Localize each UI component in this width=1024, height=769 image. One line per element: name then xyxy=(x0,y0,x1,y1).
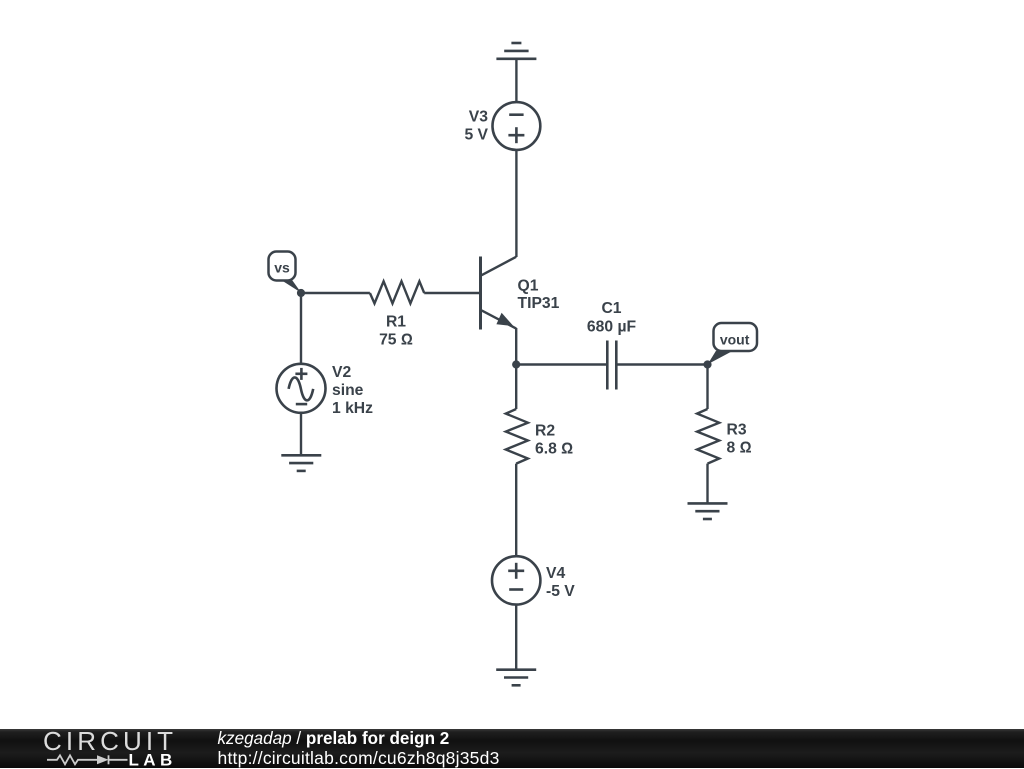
wire xyxy=(300,293,302,364)
resistor R3 xyxy=(697,409,719,464)
voltage source V3 xyxy=(493,102,541,150)
svg-text:5 V: 5 V xyxy=(464,127,488,144)
voltage source V2 xyxy=(277,364,326,413)
svg-text:Q1: Q1 xyxy=(518,278,539,295)
ground (at V4) xyxy=(496,670,536,686)
wire xyxy=(616,363,707,365)
wire xyxy=(706,365,708,410)
voltage source V4 xyxy=(492,556,540,604)
svg-text:V3: V3 xyxy=(469,109,488,126)
svg-text:vs: vs xyxy=(274,260,290,276)
ground (at R3) xyxy=(688,503,728,519)
svg-text:V4: V4 xyxy=(546,565,565,582)
capacitor C1 xyxy=(607,341,616,390)
svg-text:V2: V2 xyxy=(332,364,351,381)
node (vout) xyxy=(703,360,711,368)
svg-text:vout: vout xyxy=(720,332,750,348)
footer title text xyxy=(218,729,450,749)
wire xyxy=(301,292,370,294)
footer url text xyxy=(218,748,500,769)
svg-text:75 Ω: 75 Ω xyxy=(379,332,413,349)
flag vout xyxy=(708,323,757,364)
transistor Q1 xyxy=(481,257,517,330)
svg-text:6.8 Ω: 6.8 Ω xyxy=(535,441,573,458)
wire (emitter to node) xyxy=(515,328,517,365)
svg-text:-5 V: -5 V xyxy=(546,583,575,600)
ground (at V2) xyxy=(281,455,321,471)
wire xyxy=(706,464,708,504)
svg-text:8 Ω: 8 Ω xyxy=(727,440,752,457)
CircuitLab logo xyxy=(0,729,200,768)
wire xyxy=(515,59,517,103)
resistor R1 xyxy=(370,281,424,303)
svg-text:680 µF: 680 µF xyxy=(587,319,637,336)
flag vs xyxy=(269,252,302,293)
svg-text:R1: R1 xyxy=(386,314,406,331)
resistor R2 xyxy=(506,409,528,464)
svg-text:LAB: LAB xyxy=(129,751,177,769)
svg-text:R2: R2 xyxy=(535,423,555,440)
node (emitter) xyxy=(512,360,520,368)
svg-text:1 kHz: 1 kHz xyxy=(332,400,373,417)
wire xyxy=(516,363,607,365)
wire (base) xyxy=(424,292,479,294)
ground (top, at V3) xyxy=(496,43,536,59)
svg-text:R3: R3 xyxy=(727,422,747,439)
node (vs) xyxy=(297,289,305,297)
wire xyxy=(515,464,517,557)
wire xyxy=(515,150,517,257)
wire xyxy=(515,365,517,410)
footer bar xyxy=(0,729,1024,768)
wire xyxy=(515,605,517,670)
svg-text:C1: C1 xyxy=(601,300,621,317)
svg-text:sine: sine xyxy=(332,382,364,399)
svg-text:TIP31: TIP31 xyxy=(518,295,560,312)
wire xyxy=(300,413,302,456)
